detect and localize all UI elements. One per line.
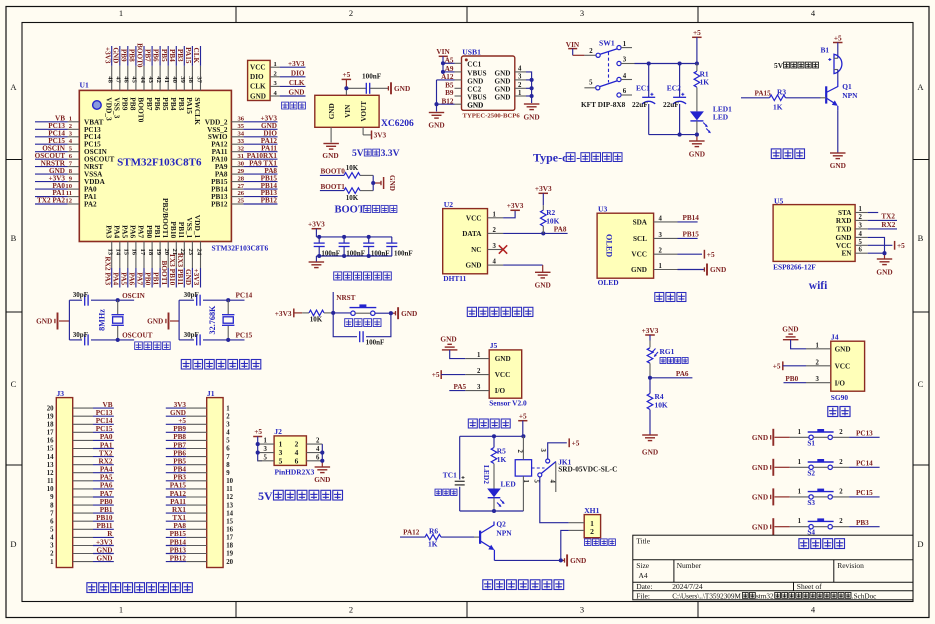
pin 8 VSSA U1 left bbox=[68, 168, 104, 179]
svg-text:NPN: NPN bbox=[842, 91, 858, 100]
node PB11 label J3 bbox=[97, 522, 113, 530]
svg-text:5: 5 bbox=[859, 239, 863, 246]
svg-text:2: 2 bbox=[659, 248, 663, 255]
pin 13 PA3 U1 bottom bbox=[104, 225, 113, 268]
node PA12 label bbox=[403, 529, 420, 537]
node +3V3 label bbox=[261, 115, 278, 123]
svg-text:+5: +5 bbox=[254, 427, 262, 436]
svg-text:BOOT1: BOOT1 bbox=[160, 260, 169, 285]
title BOOT config bbox=[335, 205, 397, 216]
svg-text:DHT11: DHT11 bbox=[443, 274, 466, 283]
wire net PA5 bbox=[127, 268, 129, 288]
connector download port box bbox=[248, 60, 271, 100]
svg-text:4: 4 bbox=[50, 535, 54, 542]
junction gnd bus 2 bbox=[530, 86, 534, 90]
svg-text:J1: J1 bbox=[207, 389, 215, 398]
pin 29 PA8 U1 right bbox=[215, 168, 245, 179]
svg-text:38: 38 bbox=[187, 76, 194, 83]
capacitor 100nF filter 3 bbox=[363, 237, 389, 257]
node PB12 label bbox=[261, 197, 278, 205]
ground dht bbox=[535, 272, 551, 289]
switch SW1 pole 4-5 bbox=[584, 73, 632, 90]
wire USB1 right gnd bus bbox=[526, 72, 532, 103]
svg-text:PA15: PA15 bbox=[184, 47, 192, 64]
title 5V to 3.3V bbox=[352, 148, 400, 159]
svg-text:18: 18 bbox=[47, 422, 54, 429]
junction filter bottom 2 bbox=[342, 254, 346, 258]
junction filter top 3 bbox=[367, 235, 371, 239]
wire A12 B12 to ground bbox=[437, 80, 455, 112]
svg-text:11: 11 bbox=[226, 486, 233, 493]
pin A9 VBUS USB1 bbox=[445, 65, 487, 77]
svg-text:GND: GND bbox=[752, 493, 768, 502]
node OSCOUT label bbox=[122, 332, 153, 340]
node RX2 label J3 bbox=[99, 458, 113, 466]
svg-text:9: 9 bbox=[50, 494, 54, 501]
svg-text:4: 4 bbox=[316, 446, 320, 453]
pin 8 J1 bbox=[186, 462, 230, 469]
node PA8 label bbox=[264, 167, 277, 175]
svg-text:Number: Number bbox=[677, 561, 702, 570]
svg-text:6: 6 bbox=[295, 456, 299, 465]
wire net PA8 bbox=[243, 173, 277, 175]
svg-text:PC15: PC15 bbox=[856, 489, 873, 497]
junction rail coil bbox=[521, 434, 525, 438]
svg-text:15: 15 bbox=[47, 446, 54, 453]
button S3 bbox=[790, 488, 849, 507]
node RX1 label J1 bbox=[172, 506, 186, 514]
junction rail R1 bbox=[695, 61, 699, 65]
svg-text:12: 12 bbox=[47, 470, 54, 477]
svg-text:GND: GND bbox=[570, 556, 586, 565]
node +5 label J1 bbox=[178, 417, 186, 425]
capacitor TC1 tantalum bbox=[443, 471, 465, 485]
capacitor 30pF top crystal2 bbox=[184, 291, 201, 306]
pin 28 PB15 U1 right bbox=[211, 175, 245, 186]
pin 1 J3 bbox=[50, 559, 93, 566]
svg-text:TYPEC-2500-BCP6: TYPEC-2500-BCP6 bbox=[463, 112, 521, 119]
wire net PB7 bbox=[151, 46, 153, 66]
title block bbox=[633, 535, 913, 600]
svg-text:PA11: PA11 bbox=[170, 498, 186, 506]
svg-text:PB6: PB6 bbox=[153, 97, 162, 110]
svg-text:3: 3 bbox=[580, 8, 584, 18]
svg-text:U2: U2 bbox=[444, 200, 453, 209]
svg-text:3: 3 bbox=[859, 222, 863, 229]
svg-text:GND: GND bbox=[642, 448, 658, 457]
svg-text:30pF: 30pF bbox=[73, 331, 88, 339]
pin 7 J3 bbox=[50, 510, 93, 517]
svg-text:PB5: PB5 bbox=[173, 458, 186, 466]
svg-text:30pF: 30pF bbox=[73, 291, 88, 299]
svg-text:RG1: RG1 bbox=[660, 347, 675, 356]
pin 41 PB5 U1 top bbox=[161, 66, 170, 111]
wire net PA8 J1 bbox=[166, 528, 187, 530]
junction bottom R1 bbox=[695, 133, 699, 137]
pin 3 PC14 U1 left bbox=[68, 130, 102, 141]
wire net PC13 S1 bbox=[849, 436, 880, 438]
svg-text:PB8: PB8 bbox=[128, 49, 136, 62]
relay JK1 coil bbox=[515, 436, 531, 511]
svg-text:PA12: PA12 bbox=[403, 529, 420, 537]
power +3V3 reset bbox=[275, 309, 309, 318]
svg-text:I/O: I/O bbox=[835, 379, 846, 387]
node PB8 label bbox=[128, 49, 136, 62]
svg-text:+3V3: +3V3 bbox=[507, 201, 524, 210]
svg-text:PC13: PC13 bbox=[856, 430, 873, 438]
pin 2 RXD ESP8266 bbox=[836, 214, 868, 225]
svg-text:J5: J5 bbox=[490, 341, 498, 350]
svg-text:PA5: PA5 bbox=[119, 272, 128, 285]
pin 5 J2 left bbox=[258, 454, 283, 465]
title relay control output bbox=[483, 580, 564, 590]
wire net PC14 bbox=[35, 136, 68, 138]
node PA4 label J3 bbox=[100, 466, 113, 474]
pin 30 PA9 U1 right bbox=[215, 160, 245, 171]
node PB15 label J1 bbox=[170, 530, 187, 538]
wire BOOT0 bbox=[320, 174, 373, 176]
svg-text:2: 2 bbox=[349, 8, 353, 18]
title buzzer bbox=[771, 149, 804, 159]
node GND label J3 bbox=[97, 554, 113, 562]
svg-text:J4: J4 bbox=[831, 333, 839, 342]
svg-text:GND: GND bbox=[250, 92, 266, 100]
pin 15 J1 bbox=[186, 518, 233, 525]
pin 20 J3 bbox=[47, 405, 93, 412]
ground typec rail bbox=[689, 141, 705, 159]
node GND label bbox=[261, 122, 277, 130]
junction crystal1 top bbox=[116, 298, 120, 302]
node PA7 label bbox=[136, 272, 145, 285]
svg-text:LED: LED bbox=[501, 480, 516, 489]
svg-text:PB6: PB6 bbox=[173, 449, 186, 457]
svg-text:GND: GND bbox=[401, 309, 417, 318]
svg-text:14: 14 bbox=[226, 510, 233, 517]
svg-text:GND: GND bbox=[289, 89, 305, 97]
node PB14 label bbox=[683, 214, 700, 222]
svg-text:18: 18 bbox=[226, 543, 233, 550]
svg-text:PA5: PA5 bbox=[121, 225, 130, 238]
svg-text:1: 1 bbox=[119, 8, 123, 18]
pin 6 J3 bbox=[50, 518, 93, 525]
node PA5 label bbox=[119, 272, 128, 285]
wire net PC15 J3 bbox=[93, 431, 114, 433]
svg-text:BOOT0: BOOT0 bbox=[321, 168, 346, 176]
wire net PA1 J3 bbox=[93, 448, 114, 450]
svg-text:1: 1 bbox=[798, 488, 802, 495]
svg-text:12: 12 bbox=[226, 494, 233, 501]
svg-text:+3V3: +3V3 bbox=[103, 47, 111, 64]
node PA11 label J1 bbox=[170, 498, 186, 506]
node PB3 label bbox=[176, 49, 184, 62]
junction PA6 bbox=[648, 376, 652, 380]
svg-text:PB10: PB10 bbox=[169, 221, 178, 238]
svg-text:VCC: VCC bbox=[495, 371, 511, 379]
pin 16 PA6 U1 bottom bbox=[129, 225, 138, 268]
svg-text:SRD-05VDC-SL-C: SRD-05VDC-SL-C bbox=[558, 465, 617, 474]
svg-text:VCC: VCC bbox=[631, 251, 647, 259]
node PA1 label bbox=[52, 189, 65, 197]
pin 18 J1 bbox=[186, 543, 233, 550]
button S2 bbox=[790, 459, 849, 478]
svg-text:GND: GND bbox=[876, 268, 892, 277]
ground port crystal2 bbox=[147, 313, 179, 330]
wire TC1 branch bbox=[459, 436, 461, 511]
junction VIN A9 bbox=[441, 70, 445, 74]
svg-text:D: D bbox=[917, 539, 923, 549]
svg-text:10K: 10K bbox=[346, 194, 359, 202]
pin 3 TXD ESP8266 bbox=[836, 222, 867, 233]
svg-text:PB0: PB0 bbox=[145, 225, 154, 238]
node +3V3 label J3 bbox=[96, 538, 113, 546]
junction rail R5 bbox=[492, 434, 496, 438]
node PA15 label bbox=[184, 47, 192, 64]
svg-text:PB4: PB4 bbox=[173, 466, 186, 474]
svg-text:5V: 5V bbox=[352, 148, 364, 159]
svg-text:7: 7 bbox=[50, 510, 54, 517]
power +5 J2 bbox=[253, 427, 262, 461]
svg-text:BOOT: BOOT bbox=[335, 205, 365, 216]
svg-text:VB: VB bbox=[103, 401, 113, 409]
svg-text:U1: U1 bbox=[80, 81, 89, 90]
wire bottom rail typec leds bbox=[649, 135, 697, 141]
svg-text:VSS_1: VSS_1 bbox=[185, 217, 194, 238]
svg-text:GND: GND bbox=[830, 161, 846, 170]
svg-text:R3: R3 bbox=[777, 87, 786, 96]
svg-text:PB14: PB14 bbox=[170, 538, 187, 546]
svg-text:R6: R6 bbox=[429, 527, 438, 536]
wire net PB3 bbox=[183, 46, 185, 66]
power port +5 wifi bbox=[895, 241, 906, 250]
svg-text:GND: GND bbox=[36, 317, 52, 326]
svg-text:2: 2 bbox=[50, 551, 54, 558]
svg-text:PB7: PB7 bbox=[144, 49, 152, 62]
svg-text:GND: GND bbox=[147, 317, 163, 326]
svg-text:PA4: PA4 bbox=[100, 466, 113, 474]
svg-text:100nF: 100nF bbox=[321, 249, 340, 257]
node PA12 label bbox=[261, 137, 278, 145]
resistor R4 10K bbox=[647, 378, 668, 435]
svg-text:39: 39 bbox=[179, 76, 186, 83]
pin 1 J1 bbox=[186, 405, 230, 412]
svg-text:PB14: PB14 bbox=[683, 214, 700, 222]
wire net R J3 bbox=[93, 536, 114, 538]
pin 32 PA11 U1 right bbox=[212, 145, 245, 156]
wire filter bottom rail bbox=[316, 256, 392, 262]
junction gnd bus 3 bbox=[530, 78, 534, 82]
node PC14 label bbox=[48, 129, 65, 137]
ground port S1 bbox=[752, 429, 790, 446]
wire net PC14 S2 bbox=[849, 466, 880, 468]
svg-text:GND: GND bbox=[322, 151, 338, 160]
pin 24 VDD_1 U1 bottom bbox=[193, 215, 202, 268]
title soil moisture bbox=[468, 419, 510, 428]
svg-text:3: 3 bbox=[493, 243, 497, 250]
svg-text:PB12: PB12 bbox=[170, 554, 187, 562]
svg-text:C: C bbox=[11, 379, 17, 389]
node PA6 label bbox=[128, 272, 137, 285]
wire net GND J3 bbox=[93, 561, 114, 563]
wire VCC to +3V3 bbox=[503, 210, 515, 218]
node PB1 label J3 bbox=[100, 506, 113, 514]
wire net PB6 J1 bbox=[166, 456, 187, 458]
svg-text:Sensor V2.0: Sensor V2.0 bbox=[489, 399, 527, 408]
ground port relay bbox=[565, 554, 587, 566]
capacitor 30pF top crystal1 bbox=[73, 291, 88, 306]
ground port boot rotated bbox=[381, 175, 396, 191]
svg-text:20: 20 bbox=[47, 405, 54, 412]
svg-text:+5: +5 bbox=[572, 439, 580, 448]
connector J5 body bbox=[489, 341, 522, 398]
pin 2 VCC OLED bbox=[631, 248, 677, 259]
node PA8 label J1 bbox=[173, 522, 186, 530]
svg-text:CLK: CLK bbox=[192, 48, 200, 64]
wire net PB7 J1 bbox=[166, 448, 187, 450]
pin 1 VBAT U1 left bbox=[68, 116, 104, 127]
node PA9 TX1 label bbox=[249, 159, 277, 167]
regulator U4 XC6206 body bbox=[315, 95, 379, 127]
svg-text:GND: GND bbox=[314, 475, 330, 484]
svg-text:47: 47 bbox=[115, 76, 122, 83]
svg-text:J2: J2 bbox=[274, 427, 282, 436]
wire net +3V3 bbox=[35, 181, 68, 183]
node PB6 label bbox=[152, 49, 160, 62]
wire VIN to CC1/VBUS bbox=[443, 56, 455, 72]
svg-text:Sheet of: Sheet of bbox=[797, 582, 822, 591]
wire STA stub bbox=[868, 212, 879, 214]
wire net PA6 J3 bbox=[93, 488, 114, 490]
wire net PA4 J3 bbox=[93, 472, 114, 474]
wire net PC14 J3 bbox=[93, 423, 114, 425]
pin 4 SDA OLED bbox=[633, 215, 678, 226]
svg-text:PB15: PB15 bbox=[170, 530, 187, 538]
svg-text:+5: +5 bbox=[897, 241, 905, 250]
pin 18 PB0 U1 bottom bbox=[145, 225, 154, 268]
svg-text:VCC: VCC bbox=[836, 242, 852, 250]
svg-text:1: 1 bbox=[859, 206, 863, 213]
wire net PB14 J1 bbox=[166, 545, 187, 547]
svg-text:VCC: VCC bbox=[835, 362, 851, 370]
wire VCC +5 wifi bbox=[868, 244, 893, 246]
svg-text:S2: S2 bbox=[807, 469, 815, 477]
power +3V3 light bbox=[642, 326, 659, 341]
wire net PA15 J1 bbox=[166, 488, 187, 490]
svg-text:GND: GND bbox=[782, 325, 798, 334]
wire net GND bbox=[243, 128, 277, 130]
node TX2 label bbox=[881, 213, 895, 221]
svg-text:6: 6 bbox=[623, 88, 627, 95]
node CLK label bbox=[192, 48, 200, 64]
pin VOUT wire to 3V3 port bbox=[363, 127, 371, 135]
op-amp U1 designator bbox=[80, 81, 89, 90]
text KFT DIP-8X8 comment bbox=[581, 100, 626, 109]
wire +5 node to VIN pin bbox=[346, 88, 366, 95]
pin GND bottom text USB1 bbox=[467, 101, 483, 109]
wire net PA5 J3 bbox=[93, 480, 114, 482]
svg-text:3: 3 bbox=[518, 74, 522, 81]
title independent buttons bbox=[799, 539, 845, 549]
svg-text:GND: GND bbox=[523, 113, 539, 122]
node PA11 label bbox=[261, 144, 277, 152]
wire net GND bbox=[35, 173, 68, 175]
pin 8 J3 bbox=[50, 502, 93, 509]
node PB1 label bbox=[152, 272, 161, 285]
wire net PB14 bbox=[243, 188, 277, 190]
text tantalum cap label bbox=[435, 489, 457, 495]
wire net PB9 J1 bbox=[166, 431, 187, 433]
svg-text:PB4: PB4 bbox=[169, 97, 178, 110]
svg-text:TX2: TX2 bbox=[881, 213, 895, 221]
node PA0 label J3 bbox=[100, 433, 113, 441]
svg-text:GND: GND bbox=[97, 546, 113, 554]
svg-text:+3V3: +3V3 bbox=[192, 268, 201, 285]
svg-text:PB7: PB7 bbox=[173, 441, 186, 449]
svg-text:VOUT: VOUT bbox=[360, 101, 368, 122]
svg-text:2: 2 bbox=[839, 429, 843, 436]
svg-text:3: 3 bbox=[226, 422, 230, 429]
svg-text:PB5: PB5 bbox=[160, 49, 168, 62]
node BOOT1 label bbox=[321, 183, 346, 191]
power port VIN typec bbox=[436, 47, 450, 56]
svg-text:GND: GND bbox=[752, 433, 768, 442]
svg-text:PA4: PA4 bbox=[112, 225, 121, 238]
node PB8 label J1 bbox=[173, 433, 186, 441]
svg-text:42: 42 bbox=[155, 76, 162, 83]
wire net PA11 bbox=[243, 151, 277, 153]
node PA1 label J3 bbox=[100, 441, 113, 449]
wire net TX2 PA2 bbox=[35, 203, 68, 205]
node PA6 label J3 bbox=[100, 482, 113, 490]
svg-text:5: 5 bbox=[589, 80, 593, 87]
wire net GND bbox=[191, 268, 193, 288]
junction B12 gnd bbox=[434, 102, 438, 106]
junction reset right bbox=[389, 311, 393, 315]
svg-text:PC14: PC14 bbox=[96, 417, 113, 425]
svg-text:PB3: PB3 bbox=[177, 97, 186, 110]
pin 11 J1 bbox=[186, 486, 233, 493]
svg-text:PB9: PB9 bbox=[173, 425, 186, 433]
junction crystal2 bottom bbox=[226, 338, 230, 342]
node PB7 label J1 bbox=[173, 441, 186, 449]
svg-text:45: 45 bbox=[131, 76, 138, 83]
svg-text:PB1: PB1 bbox=[152, 272, 161, 285]
pin 33 PA12 U1 right bbox=[211, 138, 245, 149]
power +5 buzzer bbox=[833, 33, 843, 58]
svg-text:8: 8 bbox=[50, 502, 54, 509]
pin 21 PB10 U1 bottom bbox=[169, 221, 178, 268]
wire net PC15 bbox=[35, 143, 68, 145]
pin 3 SCL OLED bbox=[633, 232, 677, 243]
wire net PC15 S3 bbox=[849, 496, 880, 498]
node PB12 label J1 bbox=[170, 554, 187, 562]
node PA10RX1 label bbox=[247, 152, 278, 160]
svg-text:B1: B1 bbox=[821, 46, 830, 55]
svg-text:PA0: PA0 bbox=[100, 433, 113, 441]
svg-text:VDD_1: VDD_1 bbox=[193, 215, 202, 239]
button reset bbox=[350, 304, 377, 315]
text white socket label bbox=[584, 539, 615, 546]
svg-text:37: 37 bbox=[195, 76, 202, 83]
svg-text:Type-c: Type-c bbox=[533, 151, 568, 165]
pin A12 GND USB1 bbox=[441, 73, 483, 85]
junction filter top 2 bbox=[342, 235, 346, 239]
svg-text:1: 1 bbox=[798, 429, 802, 436]
pin 12 J1 bbox=[186, 494, 233, 501]
svg-text:3.3V: 3.3V bbox=[381, 148, 400, 159]
pin 35 VSS_2 U1 right bbox=[207, 123, 245, 134]
svg-text:VIN: VIN bbox=[344, 104, 352, 118]
svg-text:GND: GND bbox=[394, 84, 410, 93]
